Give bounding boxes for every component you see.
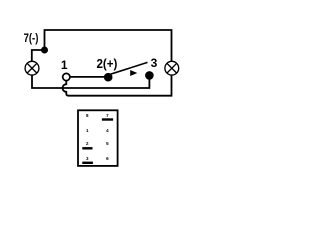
terminal 2 dot: [104, 73, 113, 82]
lamp left (circle with X): [25, 61, 39, 75]
wire terminal 1 to terminal 2: [70, 76, 108, 78]
node 7(-) junction dot: [41, 47, 48, 54]
switch body outline: [78, 110, 118, 166]
wire terminal 1 down with hop over crossing, across to right lamp: [63, 75, 172, 96]
svg-text:7(-): 7(-): [24, 31, 39, 45]
pin 3 terminal bar: [82, 162, 93, 164]
wire left lamp bottom to terminal 3 (runs under hop): [32, 75, 149, 88]
lamp right (circle with X): [165, 61, 179, 75]
terminal 1 (open circle): [63, 73, 70, 80]
pin 7 terminal bar: [102, 118, 113, 120]
pin 2 terminal bar: [82, 147, 92, 149]
wire top rail from node 7 up, across, down to right lamp: [45, 30, 172, 62]
arrowhead on lever: [130, 70, 137, 76]
switch lever from terminal 2: [106, 62, 148, 75]
terminal 3 dot: [145, 71, 154, 80]
wire from node 7 to left lamp top: [32, 50, 45, 62]
svg-text:3: 3: [151, 56, 158, 70]
svg-text:1: 1: [61, 58, 68, 72]
svg-text:2(+): 2(+): [97, 57, 118, 71]
